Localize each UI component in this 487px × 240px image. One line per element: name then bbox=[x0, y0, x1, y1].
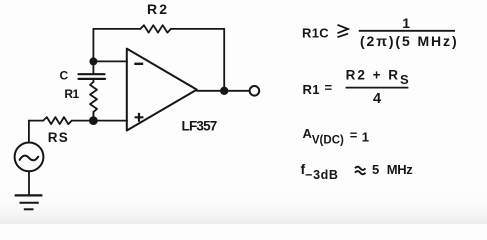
svg-text:R1: R1 bbox=[64, 87, 79, 101]
source V1 sine bbox=[20, 156, 39, 161]
wire R1 to plus node bbox=[92, 112, 94, 121]
svg-text:RS: RS bbox=[48, 130, 69, 145]
wire noninverting input bbox=[93, 120, 127, 122]
wire capacitor top stub bbox=[92, 61, 94, 73]
resistor R1 bbox=[90, 82, 97, 117]
svg-text:R1: R1 bbox=[303, 82, 320, 97]
output terminal open circle bbox=[250, 86, 260, 96]
scan shading bottom bbox=[0, 190, 487, 224]
wire RS left segment bbox=[29, 120, 43, 122]
resistor RS bbox=[43, 117, 72, 124]
wire output bbox=[197, 90, 250, 92]
capacitor C bbox=[79, 74, 106, 79]
equation 1 fraction bar bbox=[359, 30, 455, 32]
wire right feedback vertical bbox=[223, 29, 225, 91]
wire source bottom bbox=[28, 172, 30, 195]
wire top rail left segment bbox=[93, 28, 140, 30]
svg-text:1: 1 bbox=[362, 129, 369, 144]
wire left feedback vertical bbox=[92, 29, 94, 62]
node junction dot output bbox=[220, 87, 228, 95]
wire capacitor to R1 stub bbox=[92, 79, 94, 82]
svg-text:4: 4 bbox=[373, 91, 381, 107]
svg-text:(2π)(5 MHz): (2π)(5 MHz) bbox=[360, 33, 459, 49]
svg-text:C: C bbox=[60, 69, 69, 83]
op-amp minus input symbol bbox=[134, 63, 143, 65]
svg-text:5: 5 bbox=[372, 162, 379, 177]
wire inverting input bbox=[93, 60, 127, 62]
op-amp plus input symbol bbox=[135, 113, 144, 122]
ground symbol bbox=[15, 195, 43, 209]
op-amp U1 triangle bbox=[127, 49, 197, 131]
svg-text:MHz: MHz bbox=[387, 162, 413, 177]
node junction dot minus input bbox=[89, 57, 97, 65]
source V1 circle bbox=[15, 143, 44, 172]
svg-text:=: = bbox=[325, 80, 333, 95]
svg-text:=: = bbox=[350, 128, 358, 143]
svg-text:LF357: LF357 bbox=[182, 119, 217, 134]
equation 2 fraction bar bbox=[346, 87, 409, 89]
node junction dot plus input bbox=[89, 116, 98, 125]
resistor R2 bbox=[140, 25, 171, 32]
wire top rail right segment bbox=[171, 28, 224, 30]
equation 1 greater-equal symbol bbox=[338, 25, 349, 37]
wire source top bbox=[28, 121, 30, 143]
wire RS right segment bbox=[72, 120, 94, 122]
svg-text:R1C: R1C bbox=[302, 26, 329, 41]
svg-text:1: 1 bbox=[402, 15, 410, 31]
equation 4 approx symbol bbox=[355, 167, 365, 175]
svg-text:R2: R2 bbox=[147, 1, 169, 17]
